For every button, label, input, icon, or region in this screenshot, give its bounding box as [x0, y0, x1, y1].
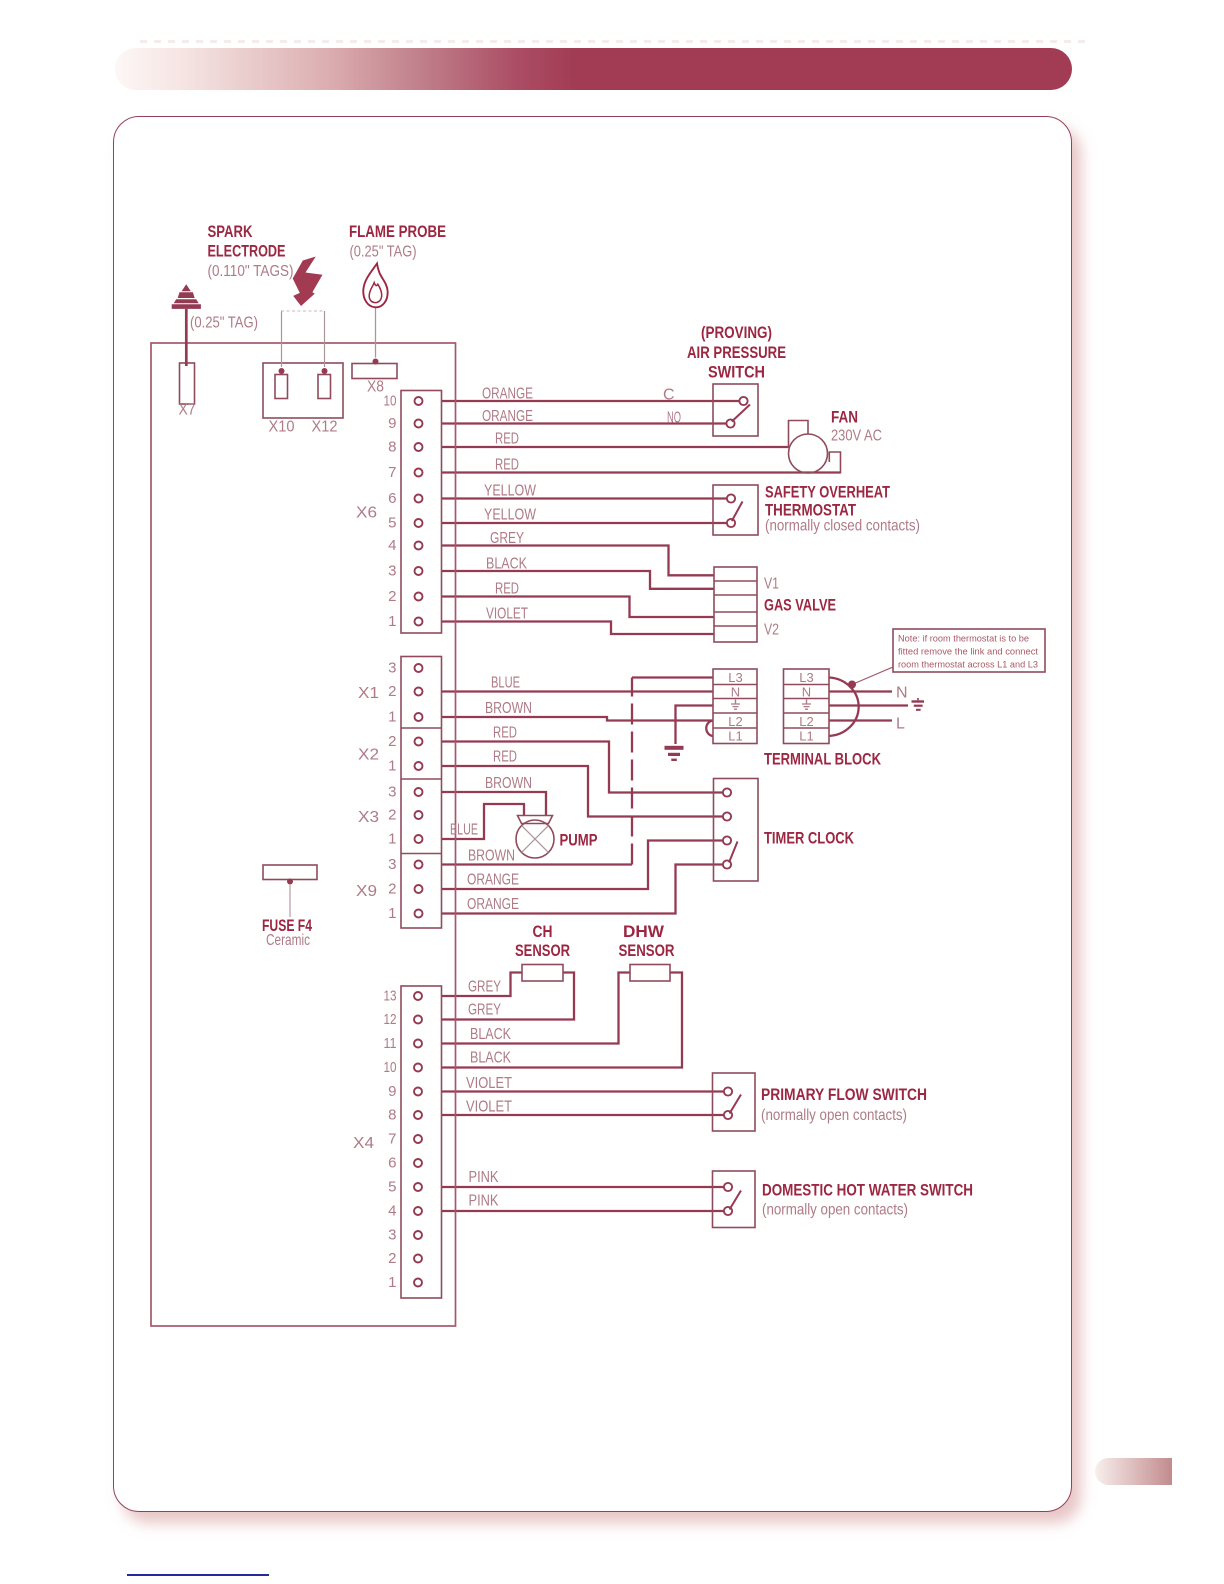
svg-text:N: N	[731, 685, 740, 700]
svg-text:TERMINAL BLOCK: TERMINAL BLOCK	[764, 751, 881, 769]
svg-text:12: 12	[384, 1011, 397, 1028]
svg-text:RED: RED	[493, 749, 517, 766]
svg-text:5: 5	[388, 515, 396, 532]
svg-text:X6: X6	[356, 505, 377, 522]
svg-text:1: 1	[388, 905, 396, 922]
svg-text:ORANGE: ORANGE	[482, 408, 533, 425]
svg-text:X3: X3	[358, 809, 379, 826]
svg-text:CH: CH	[533, 923, 553, 941]
svg-text:V1: V1	[764, 576, 779, 593]
svg-text:L3: L3	[799, 670, 813, 685]
svg-text:ELECTRODE: ELECTRODE	[208, 243, 286, 261]
svg-text:9: 9	[388, 1083, 396, 1100]
svg-text:1: 1	[388, 709, 396, 726]
svg-text:PINK: PINK	[469, 1193, 499, 1210]
svg-text:10: 10	[384, 1059, 397, 1076]
svg-text:X12: X12	[312, 419, 338, 436]
svg-text:2: 2	[388, 588, 396, 605]
svg-text:YELLOW: YELLOW	[484, 507, 537, 524]
svg-text:ORANGE: ORANGE	[482, 386, 533, 403]
svg-text:8: 8	[388, 1107, 396, 1124]
svg-text:N: N	[896, 685, 908, 702]
svg-text:X4: X4	[353, 1135, 374, 1152]
svg-text:(normally open contacts): (normally open contacts)	[761, 1107, 907, 1124]
svg-text:ORANGE: ORANGE	[467, 872, 519, 889]
svg-text:Ceramic: Ceramic	[266, 932, 310, 949]
svg-text:BLACK: BLACK	[470, 1050, 511, 1067]
svg-text:2: 2	[388, 1250, 396, 1267]
svg-text:GREY: GREY	[468, 979, 501, 996]
svg-text:DHW: DHW	[623, 923, 664, 941]
svg-text:8: 8	[388, 439, 396, 456]
svg-text:7: 7	[388, 1131, 396, 1148]
svg-text:2: 2	[388, 807, 396, 824]
svg-text:PINK: PINK	[469, 1169, 499, 1186]
svg-text:PUMP: PUMP	[560, 832, 598, 850]
svg-text:ORANGE: ORANGE	[467, 896, 519, 913]
svg-text:fitted remove the link and con: fitted remove the link and connect	[898, 647, 1039, 657]
svg-text:SENSOR: SENSOR	[619, 942, 675, 960]
svg-text:Note: if room thermostat is to: Note: if room thermostat is to be	[898, 634, 1029, 644]
svg-text:RED: RED	[493, 725, 517, 742]
svg-text:PRIMARY FLOW SWITCH: PRIMARY FLOW SWITCH	[761, 1086, 927, 1104]
svg-text:5: 5	[388, 1179, 396, 1196]
svg-text:SAFETY OVERHEAT: SAFETY OVERHEAT	[765, 484, 890, 502]
svg-text:L3: L3	[728, 670, 742, 685]
svg-text:VIOLET: VIOLET	[466, 1075, 512, 1092]
svg-text:3: 3	[388, 660, 396, 677]
svg-text:YELLOW: YELLOW	[484, 483, 537, 500]
svg-text:2: 2	[388, 733, 396, 750]
svg-text:BROWN: BROWN	[468, 848, 515, 865]
svg-text:X9: X9	[356, 883, 377, 900]
svg-text:BLUE: BLUE	[491, 675, 520, 692]
svg-text:RED: RED	[495, 457, 519, 474]
svg-text:GREY: GREY	[468, 1002, 501, 1019]
svg-text:6: 6	[388, 1155, 396, 1172]
svg-text:RED: RED	[495, 431, 519, 448]
svg-text:6: 6	[388, 490, 396, 507]
svg-text:C: C	[663, 387, 675, 404]
svg-text:V2: V2	[764, 622, 779, 639]
svg-text:230V AC: 230V AC	[831, 428, 882, 445]
svg-text:11: 11	[384, 1035, 397, 1052]
svg-text:1: 1	[388, 758, 396, 775]
svg-text:(PROVING): (PROVING)	[701, 324, 772, 342]
svg-text:(0.25" TAG): (0.25" TAG)	[190, 315, 258, 332]
svg-text:L: L	[896, 716, 905, 733]
svg-text:DOMESTIC HOT WATER SWITCH: DOMESTIC HOT WATER SWITCH	[762, 1182, 973, 1200]
svg-text:7: 7	[388, 464, 396, 481]
svg-text:1: 1	[388, 1274, 396, 1291]
svg-text:2: 2	[388, 881, 396, 898]
svg-text:2: 2	[388, 683, 396, 700]
svg-text:13: 13	[384, 988, 397, 1005]
svg-text:4: 4	[388, 537, 396, 554]
svg-text:4: 4	[388, 1203, 396, 1220]
svg-text:N: N	[802, 685, 811, 700]
svg-text:RED: RED	[495, 581, 519, 598]
svg-text:X2: X2	[358, 747, 379, 764]
svg-text:1: 1	[388, 831, 396, 848]
svg-text:X1: X1	[358, 685, 379, 702]
svg-text:3: 3	[388, 856, 396, 873]
svg-text:L1: L1	[799, 729, 813, 744]
svg-text:X8: X8	[367, 379, 384, 396]
svg-text:BLACK: BLACK	[486, 556, 527, 573]
svg-text:SENSOR: SENSOR	[515, 942, 570, 960]
svg-text:AIR PRESSURE: AIR PRESSURE	[687, 344, 786, 362]
svg-text:TIMER CLOCK: TIMER CLOCK	[764, 830, 854, 848]
svg-text:BROWN: BROWN	[485, 700, 532, 717]
svg-text:1: 1	[388, 613, 396, 630]
svg-text:SWITCH: SWITCH	[708, 364, 765, 382]
svg-text:L1: L1	[728, 729, 742, 744]
svg-text:GAS VALVE: GAS VALVE	[764, 597, 836, 615]
svg-text:L2: L2	[728, 714, 742, 729]
svg-text:room thermostat across L1 and: room thermostat across L1 and L3	[898, 660, 1038, 670]
svg-text:(normally open contacts): (normally open contacts)	[762, 1202, 908, 1219]
svg-text:10: 10	[384, 393, 397, 410]
svg-text:FLAME PROBE: FLAME PROBE	[349, 223, 446, 241]
svg-text:BLUE: BLUE	[450, 822, 478, 839]
svg-text:X10: X10	[269, 419, 295, 436]
svg-text:BROWN: BROWN	[485, 775, 532, 792]
svg-text:(0.25" TAG): (0.25" TAG)	[350, 244, 417, 261]
svg-text:3: 3	[388, 1227, 396, 1244]
svg-text:(0.110" TAGS): (0.110" TAGS)	[208, 263, 294, 280]
svg-text:GREY: GREY	[490, 530, 524, 547]
svg-text:(normally closed contacts): (normally closed contacts)	[765, 518, 920, 535]
svg-text:3: 3	[388, 784, 396, 801]
svg-text:VIOLET: VIOLET	[466, 1099, 512, 1116]
svg-text:3: 3	[388, 563, 396, 580]
svg-text:9: 9	[388, 415, 396, 432]
svg-text:SPARK: SPARK	[208, 223, 253, 241]
svg-text:X7: X7	[179, 402, 196, 419]
svg-text:NO: NO	[667, 410, 681, 427]
svg-text:VIOLET: VIOLET	[486, 606, 528, 623]
svg-text:BLACK: BLACK	[470, 1026, 511, 1043]
svg-text:L2: L2	[799, 714, 813, 729]
svg-text:FAN: FAN	[831, 409, 858, 427]
